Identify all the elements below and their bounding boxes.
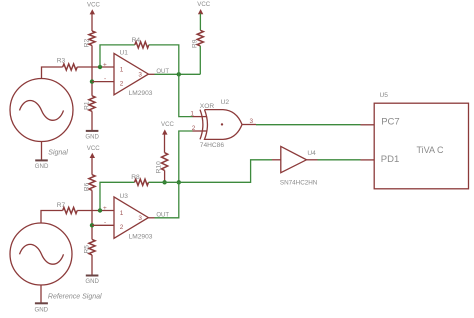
ground below R5 [85, 276, 99, 285]
pin PC7 stub [361, 124, 375, 126]
wire R1 to ground [91, 111, 93, 130]
svg-text:SN74HC2HN: SN74HC2HN [280, 179, 318, 186]
wire U1 output [148, 73, 154, 75]
ground below V2 [35, 303, 49, 313]
wire U3 output [148, 217, 154, 219]
wire U3 output to junction [155, 182, 179, 218]
wire feedback U1 up [100, 45, 135, 67]
svg-text:R3: R3 [57, 57, 66, 64]
svg-text:3: 3 [138, 215, 142, 222]
wire XOR pin2 net [179, 131, 193, 182]
wire minus input U3 [92, 224, 114, 226]
svg-text:R7: R7 [57, 202, 66, 209]
svg-text:R4: R4 [132, 37, 141, 44]
resistor R2 [83, 31, 95, 47]
wire XOR pin2 stub [193, 130, 208, 132]
resistor R7 [57, 202, 77, 214]
svg-text:74HC86: 74HC86 [200, 142, 225, 149]
voltage source V1 (Signal) [10, 79, 73, 142]
vcc above R9 [197, 1, 210, 30]
wire XOR output to PC7 [256, 124, 361, 126]
svg-text:XOR: XOR [200, 103, 215, 110]
svg-text:PC7: PC7 [381, 117, 399, 128]
wire XOR pin1 stub [193, 116, 208, 118]
svg-text:2: 2 [120, 224, 124, 231]
wire buffer input stub [272, 159, 281, 161]
vcc above R6 [87, 145, 100, 175]
wire minus input U1 [92, 81, 114, 83]
buffer U4 SN74HC2HN [280, 146, 318, 186]
svg-text:U5: U5 [380, 92, 389, 99]
svg-text:VCC: VCC [197, 1, 210, 8]
wire V1 bottom to ground [41, 142, 43, 160]
vcc above R2 [87, 2, 100, 31]
svg-text:R2: R2 [83, 38, 90, 47]
svg-text:LM2903: LM2903 [129, 234, 153, 241]
wire R9 to output net [199, 46, 201, 74]
wire U1 output to XOR pin 1 [179, 74, 193, 116]
svg-text:Signal: Signal [48, 149, 68, 156]
wire R10 to net [164, 170, 166, 182]
svg-text:GND: GND [85, 133, 99, 140]
op-amp U1 LM2903 [103, 50, 153, 98]
resistor R1 [83, 96, 95, 112]
node R10 junction [162, 180, 166, 184]
svg-text:3: 3 [138, 71, 142, 78]
svg-text:+: + [103, 62, 107, 69]
svg-text:GND: GND [35, 163, 49, 170]
svg-text:R5: R5 [83, 245, 90, 254]
resistor R8 [131, 174, 148, 185]
svg-text:TiVA C: TiVA C [417, 145, 445, 155]
node plus input U3 [98, 208, 102, 212]
node U1 output [177, 72, 181, 76]
wire R5 to ground [91, 255, 93, 275]
svg-text:-: - [104, 219, 106, 226]
svg-text:VCC: VCC [87, 145, 100, 152]
resistor R4 [132, 37, 149, 48]
svg-text:R8: R8 [131, 174, 140, 181]
resistor R3 [57, 57, 77, 70]
xor gate U2 74HC86 [190, 99, 253, 149]
resistor R10 [155, 153, 167, 174]
ground below V1 [35, 160, 49, 169]
wire U4 output to PD1 [318, 159, 361, 161]
node minus input U1 [90, 79, 94, 83]
wire U4 output stub [307, 159, 318, 161]
node minus input U3 [90, 223, 94, 227]
svg-text:U1: U1 [120, 50, 129, 57]
svg-text:U2: U2 [221, 99, 230, 106]
ground below R1 [85, 131, 99, 140]
svg-text:R10: R10 [155, 161, 162, 173]
wire feedback U3 up [100, 182, 135, 210]
svg-text:2: 2 [192, 125, 196, 132]
svg-text:2: 2 [120, 80, 124, 87]
svg-text:1: 1 [120, 210, 124, 217]
svg-text:VCC: VCC [87, 2, 100, 9]
wire R7 to U3 plus input [77, 210, 114, 212]
node plus input U1 [98, 65, 102, 69]
wire R8 to buffer input net [149, 160, 273, 183]
IC U5 TiVA C [374, 92, 468, 189]
svg-text:VCC: VCC [161, 121, 174, 128]
resistor R6 [83, 175, 95, 191]
svg-text:U4: U4 [307, 150, 316, 157]
svg-text:GND: GND [85, 278, 99, 285]
wire V2 to R7 [41, 211, 63, 224]
svg-text:GND: GND [35, 306, 49, 313]
svg-text:R1: R1 [83, 101, 90, 110]
op-amp U3 LM2903 [103, 193, 153, 241]
wire XOR output stub [242, 124, 256, 126]
wire V1 top to R3 [42, 67, 63, 79]
resistor R9 [191, 30, 203, 48]
svg-text:U3: U3 [120, 193, 129, 200]
vcc above R10 [161, 121, 174, 153]
resistor R5 [83, 239, 95, 255]
svg-text:+: + [103, 205, 107, 212]
svg-text:R9: R9 [191, 39, 198, 48]
wire R6 to R5 rail [91, 190, 93, 239]
wire R2 to R1 rail [91, 45, 93, 95]
wire R3 to U1 plus input [77, 66, 114, 68]
svg-text:Reference Signal: Reference Signal [48, 293, 102, 300]
svg-text:-: - [104, 75, 106, 82]
svg-text:PD1: PD1 [381, 154, 399, 165]
svg-text:LM2903: LM2903 [129, 90, 153, 97]
svg-text:R6: R6 [83, 182, 90, 191]
voltage source V2 (Reference Signal) [10, 223, 72, 285]
svg-text:1: 1 [190, 110, 194, 117]
svg-text:1: 1 [120, 67, 124, 74]
wire R4 to output node [149, 45, 179, 74]
svg-text:3: 3 [250, 118, 254, 125]
wire V2 top to R7 [40, 285, 42, 303]
node XOR pin2 junction [177, 180, 181, 184]
wire output net to R9 [155, 73, 201, 75]
pin PD1 stub [361, 159, 375, 161]
